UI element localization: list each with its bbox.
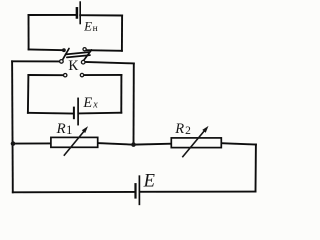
wire: middle bus center junction to R2	[134, 143, 172, 146]
node: junction dot middle bus and switch branch	[131, 142, 136, 147]
wire: middle bus R1 to center junction	[98, 143, 134, 145]
battery E long plate	[138, 176, 140, 204]
resistor R1 arrow	[64, 126, 88, 156]
node: open contact on E_n bottom edge right	[83, 48, 86, 51]
wire: left bus vertical	[11, 61, 14, 192]
wire: bottom bus left segment	[13, 191, 135, 193]
wire: E_x box bottom edge left segment	[28, 112, 73, 115]
wire: middle bus R2 to right bus corner	[221, 143, 256, 144]
wire: E_n box right edge	[121, 16, 123, 51]
wire: E_x box top edge right segment	[84, 74, 122, 76]
wire: E_n box top edge right segment	[80, 14, 122, 16]
wire: vertical from switch K common down to middle bus junction	[133, 63, 135, 144]
wire: switch K row left wire from left bus corner	[12, 60, 60, 62]
wire: E_x box top edge left segment	[28, 74, 63, 76]
wire: E_n box left edge	[28, 15, 30, 49]
wire: right bus vertical	[255, 145, 257, 192]
node: open contact switch K row right	[81, 60, 85, 64]
node: junction dot at switch pivot on E_n bottom edge	[62, 48, 66, 52]
resistor R2 arrow	[182, 126, 208, 157]
node: open contact switch K row left	[60, 60, 64, 64]
wire: E_n box top edge left segment	[29, 14, 76, 16]
svg-text:К: К	[68, 58, 79, 74]
node: open contact on E_x top edge right	[80, 73, 83, 76]
resistor R2 (rheostat) body	[171, 138, 221, 148]
wire: E_x box right edge	[120, 75, 122, 113]
node: junction dot left bus and middle bus	[11, 141, 16, 146]
wire: E_n box bottom edge right segment from contact	[86, 49, 122, 52]
battery E short plate	[134, 184, 136, 197]
wire: bottom bus right segment	[140, 191, 255, 193]
svg-text:R1: R1	[56, 121, 73, 137]
battery E_n long plate	[79, 2, 81, 23]
switch K blade assembly (double-pole knife blades with crossbar)	[63, 49, 92, 61]
wire: E_n box bottom edge left segment to switch pivot	[29, 48, 63, 51]
resistor R1 (rheostat) body	[51, 137, 98, 147]
wire: middle bus from left junction to R1	[13, 142, 51, 144]
battery E_x long plate	[77, 98, 79, 124]
wire: E_x box left edge	[27, 75, 30, 113]
battery E_x short plate	[73, 108, 75, 119]
battery E_n short plate	[76, 8, 79, 17]
svg-text:E: E	[143, 172, 155, 192]
node: open contact on E_x top edge left	[63, 74, 66, 77]
wire: E_x box bottom edge right segment	[79, 112, 121, 115]
wire: switch K row right wire	[85, 62, 134, 64]
